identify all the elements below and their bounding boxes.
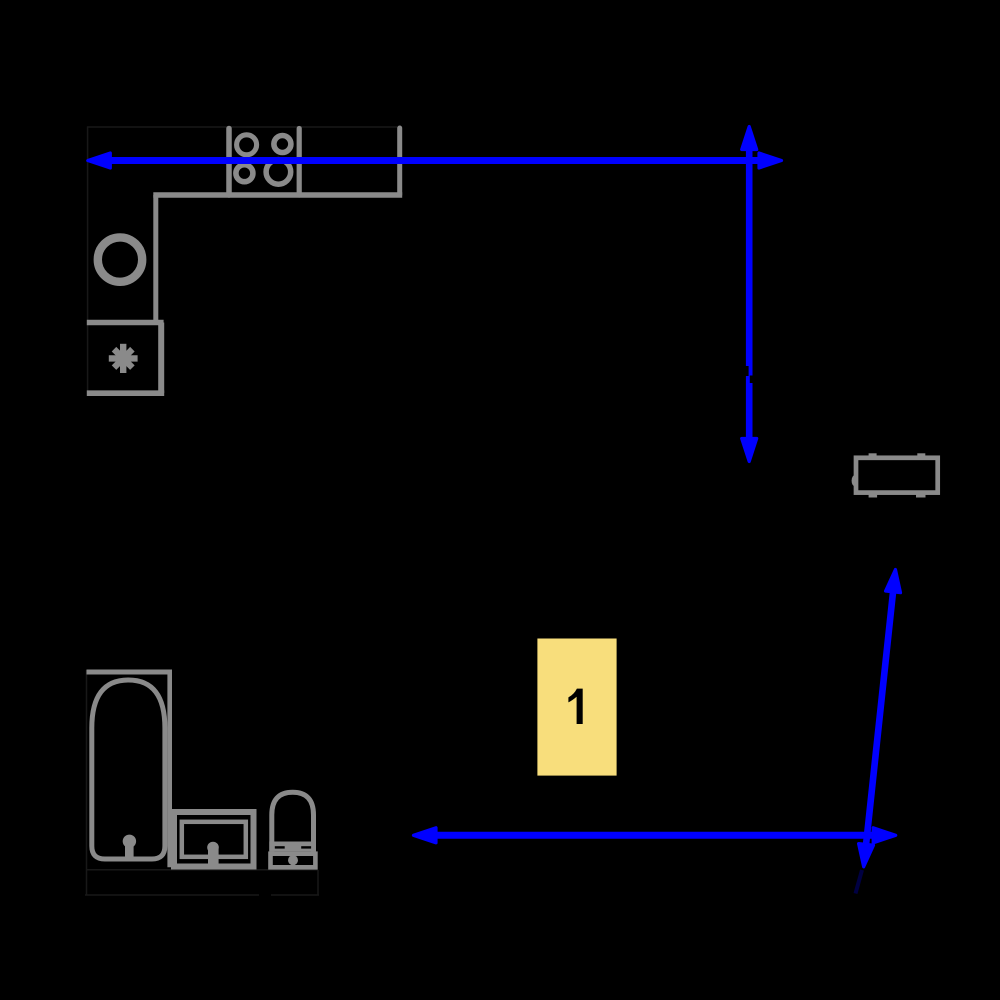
washbasin inner rect	[182, 822, 246, 857]
slanted arrow faint tail	[856, 870, 863, 894]
stove left edge	[226, 129, 232, 196]
stove right edge	[297, 129, 302, 196]
toilet tank	[271, 854, 316, 868]
bottom horizontal left arrowhead	[414, 828, 437, 843]
burner top-right	[274, 136, 291, 153]
washbasin outer rect	[174, 812, 254, 867]
bathtub tap	[123, 835, 136, 848]
fridge box	[87, 323, 164, 394]
dimension arrow slanted shaft	[866, 592, 893, 845]
top horizontal right arrowhead	[759, 153, 782, 168]
burner bottom-left	[236, 165, 253, 182]
dimension arrow top horizontal shaft	[108, 157, 761, 164]
bathtub inner tub	[92, 680, 165, 859]
toilet flush button	[288, 855, 298, 865]
kitchen counter left edge	[153, 195, 158, 323]
dimension arrow vertical shaft	[746, 147, 753, 441]
slanted top arrowhead	[886, 569, 901, 592]
toilet bowl arch	[272, 792, 314, 851]
burner bottom-right	[266, 160, 291, 185]
dimension arrow bottom horizontal shaft	[434, 832, 876, 839]
toilet inner bowl	[277, 796, 308, 842]
vertical bottom arrowhead	[742, 439, 757, 462]
toilet seat band	[269, 842, 316, 852]
slanted bottom arrowhead	[859, 844, 874, 867]
room label 1 box	[537, 639, 616, 776]
vertical top arrowhead	[742, 127, 757, 150]
vertical arrow notch	[745, 366, 749, 376]
fridge asterisk	[109, 344, 138, 373]
room label 1 text	[568, 689, 582, 724]
top horizontal left arrowhead	[88, 153, 111, 168]
bathtub outer right edge	[167, 672, 172, 867]
bathtub outer top edge	[87, 670, 173, 675]
kitchen sink circle	[98, 237, 142, 281]
radiator rectangle right	[852, 475, 858, 486]
bathroom wall outline (faint)	[85, 670, 319, 895]
washbasin tap	[207, 842, 219, 854]
kitchen counter right edge	[397, 128, 402, 195]
kitchen counter bottom edge	[153, 192, 402, 198]
bottom horizontal right arrowhead	[873, 828, 896, 843]
burner top-left	[237, 135, 257, 155]
kitchen wall outline (faint)	[88, 127, 397, 395]
toilet hinge slots	[275, 846, 285, 848]
